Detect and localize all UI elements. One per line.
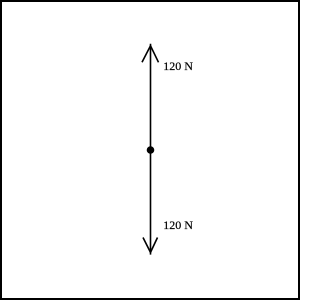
label 120 N (upper) <box>163 59 193 74</box>
label 120 N (lower) <box>163 218 193 233</box>
node point mass dot <box>147 146 155 154</box>
arrowhead up (120 N up force) <box>142 46 159 63</box>
arrowhead down (120 N down force) <box>143 238 158 253</box>
wire vertical force line <box>150 44 152 255</box>
